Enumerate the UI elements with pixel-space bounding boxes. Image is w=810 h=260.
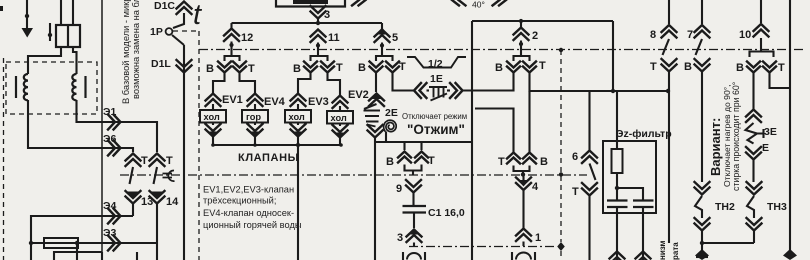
core bar left — [15, 76, 17, 98]
svg-text:5: 5 — [392, 32, 398, 44]
wire ground stub — [49, 23, 51, 41]
thermostat TH2 — [695, 182, 710, 195]
border line right — [789, 0, 791, 250]
svg-text:EV4-клапан односек-: EV4-клапан односек- — [203, 208, 294, 218]
svg-text:1: 1 — [535, 232, 541, 244]
svg-text:Э3: Э3 — [103, 227, 116, 239]
motor M2 (cut) — [512, 252, 535, 260]
wire L2 to node E1 — [77, 100, 158, 152]
svg-text:Вариант:: Вариант: — [708, 118, 723, 176]
valve bus — [213, 144, 340, 146]
svg-text:В: В — [495, 62, 503, 74]
node valve bus — [296, 143, 300, 147]
contact 7 column — [701, 0, 703, 24]
connector 6 (up) — [588, 91, 590, 152]
wire node E4 — [31, 216, 133, 260]
svg-text:T: T — [428, 155, 435, 167]
wire node E3 — [31, 242, 157, 244]
connector Э4 — [108, 209, 121, 224]
svg-text:1E: 1E — [430, 73, 443, 85]
svg-text:стирка происходит при 60°: стирка происходит при 60° — [731, 82, 741, 191]
wire T10 to border — [770, 73, 791, 88]
timer block (cut top) — [276, 0, 345, 7]
svg-text:9: 9 — [396, 183, 402, 195]
connector diamond TH2 bottom — [695, 249, 709, 260]
switch blade 6 — [590, 164, 596, 181]
wire bus y21 — [472, 20, 613, 22]
wire y92 filter feed — [612, 21, 614, 91]
switch blade 14 with thermal symbol — [154, 167, 158, 184]
svg-text:Э1: Э1 — [103, 106, 116, 118]
svg-text:хол: хол — [204, 112, 220, 122]
connector 3 (down) — [311, 6, 326, 19]
connector 13 lower chevron — [126, 191, 141, 204]
svg-text:6: 6 — [572, 151, 578, 163]
wire D1L down — [183, 45, 185, 260]
valve EV4 column — [248, 94, 263, 107]
inductor L1 (left winding) — [24, 74, 28, 100]
svg-text:В: В — [386, 156, 394, 168]
svg-text:T: T — [572, 186, 579, 198]
contact pair 10 B/T bracket — [750, 52, 774, 58]
wire filter input left — [60, 0, 62, 25]
svg-text:C1 16,0: C1 16,0 — [428, 207, 465, 219]
connector 5 (up) — [381, 23, 383, 29]
cam line 3 — [409, 246, 557, 248]
wire down from node — [76, 243, 78, 260]
svg-text:40°: 40° — [472, 0, 485, 10]
svg-text:8: 8 — [650, 29, 656, 41]
chevron right after timer — [352, 0, 366, 6]
svg-text:2: 2 — [532, 30, 538, 42]
contact 10 column — [760, 0, 762, 23]
svg-text:T: T — [498, 156, 505, 168]
svg-text:ТН3: ТН3 — [767, 201, 787, 213]
contact 8 column — [668, 0, 670, 24]
switch blade 13 — [130, 167, 134, 184]
thermal element symbol (euro-arc) — [168, 170, 174, 181]
frame dash-dot border left — [3, 58, 5, 260]
svg-text:T: T — [166, 155, 173, 167]
filter box — [603, 141, 656, 213]
svg-text:1/2: 1/2 — [428, 58, 443, 70]
svg-text:гор: гор — [246, 112, 261, 122]
connector 12 (up) — [230, 23, 232, 28]
valve EV3 column — [291, 94, 306, 107]
svg-text:возможна замена на бло: возможна замена на бло — [131, 0, 141, 99]
svg-text:EV3: EV3 — [308, 96, 329, 108]
wire filter input right — [72, 0, 74, 25]
node mains junction — [25, 14, 29, 18]
dashed section divider — [559, 48, 563, 52]
node resistor left — [29, 241, 33, 245]
valve EV1 column — [206, 94, 221, 107]
svg-text:1P: 1P — [150, 26, 163, 38]
contact 13 upper chevron T — [126, 154, 141, 167]
svg-text:T: T — [336, 62, 343, 74]
EV2 flag device — [364, 104, 377, 109]
svg-text:трёхсекционный;: трёхсекционный; — [203, 196, 276, 206]
frame mark top-left — [0, 6, 3, 11]
bottom block (cut) — [54, 252, 137, 260]
motor M1 (cut) — [403, 252, 425, 260]
connector Э1 — [108, 115, 121, 130]
wire mains input — [26, 0, 28, 28]
contact pair 2 B/T — [514, 50, 530, 61]
svg-text:D1L: D1L — [151, 58, 171, 70]
contact 14 upper chevron T — [150, 154, 165, 167]
svg-text:T: T — [399, 61, 406, 73]
connector Э3 — [108, 236, 121, 251]
node resistor right — [75, 241, 79, 245]
svg-text:ТН2: ТН2 — [715, 201, 735, 213]
svg-text:В: В — [206, 63, 214, 75]
thermal cutout 3E — [746, 110, 761, 123]
svg-text:"Отжим": "Отжим" — [407, 122, 465, 137]
svg-text:T: T — [650, 61, 657, 73]
cam profile symbol 1/2 — [407, 57, 466, 68]
svg-text:T: T — [778, 62, 785, 74]
wire L1 to node E6 — [28, 100, 133, 152]
svg-text:EV1: EV1 — [222, 94, 243, 106]
svg-text:T: T — [141, 155, 148, 167]
svg-text:В: В — [736, 62, 744, 74]
wire 14 to E3 — [156, 204, 158, 243]
solid tips valve chevrons — [209, 132, 218, 138]
svg-text:10: 10 — [739, 29, 751, 41]
arrow to mains (down) — [22, 28, 34, 38]
resistor in filter — [616, 91, 618, 149]
svg-text:Э4: Э4 — [103, 200, 116, 212]
junction diamond on cam — [557, 242, 565, 251]
svg-text:EV4: EV4 — [264, 96, 286, 108]
svg-text:2E: 2E — [385, 107, 398, 119]
svg-text:В: В — [540, 156, 548, 168]
svg-text:В: В — [293, 63, 301, 75]
contact pair 5 B/T — [376, 50, 393, 61]
wire filter to transformer left — [28, 47, 61, 74]
svg-text:12: 12 — [241, 32, 253, 44]
cam line 2 — [120, 174, 587, 176]
svg-text:низм: низм — [658, 240, 667, 260]
svg-text:Отключает режим: Отключает режим — [402, 112, 467, 121]
wire T2 right — [530, 73, 669, 91]
core bar right — [84, 76, 86, 98]
svg-text:В: В — [358, 62, 366, 74]
contact pair B/T over 9 — [405, 142, 422, 150]
connector 1 (up) — [516, 229, 531, 242]
svg-text:КЛАПАНЫ: КЛАПАНЫ — [238, 152, 299, 164]
thermal cutout 1E assembly — [414, 83, 427, 98]
inductor L2 (right winding) — [72, 74, 76, 100]
connector 4 (down) — [518, 180, 529, 187]
contact pair 11 B/T — [311, 50, 328, 61]
svg-text:хол: хол — [289, 112, 305, 122]
wire bus y23 — [232, 22, 383, 24]
svg-text:хол: хол — [331, 113, 347, 123]
svg-text:EV2: EV2 — [348, 89, 369, 101]
connector 2 (up) — [519, 19, 523, 23]
EV2 bus — [375, 141, 472, 143]
connector diamond border bottom — [783, 249, 797, 260]
svg-text:3: 3 — [324, 9, 330, 21]
svg-text:7: 7 — [687, 29, 693, 41]
cam line 1 (program switch) — [199, 49, 806, 51]
capacitor C1 — [403, 206, 427, 213]
wire D1C to 1P — [173, 13, 184, 28]
svg-text:T: T — [539, 60, 546, 72]
svg-text:Эz-фильтр: Эz-фильтр — [616, 128, 672, 140]
svg-text:4: 4 — [532, 181, 539, 193]
svg-text:В: В — [684, 61, 692, 73]
capacitor block (mains filter) — [56, 25, 80, 47]
svg-text:T: T — [248, 63, 255, 75]
connector 11 (up) — [311, 30, 326, 43]
connector 3 lower (up) — [409, 228, 420, 235]
valve 4th column (hot) — [333, 96, 348, 109]
svg-text:3Е: 3Е — [764, 126, 777, 138]
connector chevrons at cap leads bottom — [610, 252, 625, 260]
transformer dashed enclosure — [6, 62, 97, 114]
section border line — [101, 0, 103, 260]
connector 14 lower chevron — [150, 191, 165, 204]
connector 9 (down) — [406, 180, 421, 193]
wire 13 to E4 — [132, 204, 134, 216]
svg-text:EV1,EV2,EV3-клапан: EV1,EV2,EV3-клапан — [203, 185, 294, 195]
contact pair T/B over 4 — [507, 153, 520, 164]
capacitor filter right — [633, 201, 654, 208]
thermostat TH3 — [747, 182, 762, 195]
svg-text:Е: Е — [762, 142, 769, 154]
wire TH bottom link — [702, 242, 754, 244]
wire to heater contact pair — [475, 109, 514, 153]
svg-text:ционный горячей воды: ционный горячей воды — [203, 220, 302, 230]
wire 1E to B contact — [463, 73, 514, 91]
svg-text:Э6: Э6 — [103, 133, 116, 145]
svg-text:рата: рата — [671, 242, 680, 260]
wire filter to transformer right — [73, 47, 77, 74]
svg-text:3: 3 — [397, 232, 403, 244]
wire B10 down — [752, 73, 754, 109]
svg-text:14: 14 — [166, 196, 179, 208]
resistor R1 — [44, 238, 78, 248]
svg-text:В базовой модели - микропере: В базовой модели - микропере — [121, 0, 131, 104]
svg-text:11: 11 — [328, 32, 340, 44]
contact pair 12 B/T — [225, 50, 240, 61]
long vertical drop line — [471, 21, 473, 260]
temperature marks top — [452, 0, 466, 6]
svg-text:D1C: D1C — [154, 0, 175, 12]
capacitor filter left — [607, 201, 628, 208]
connector T under 6 (down) — [582, 183, 597, 196]
connector Э6 — [108, 141, 121, 156]
dashed mechanical link 1P — [173, 31, 199, 260]
